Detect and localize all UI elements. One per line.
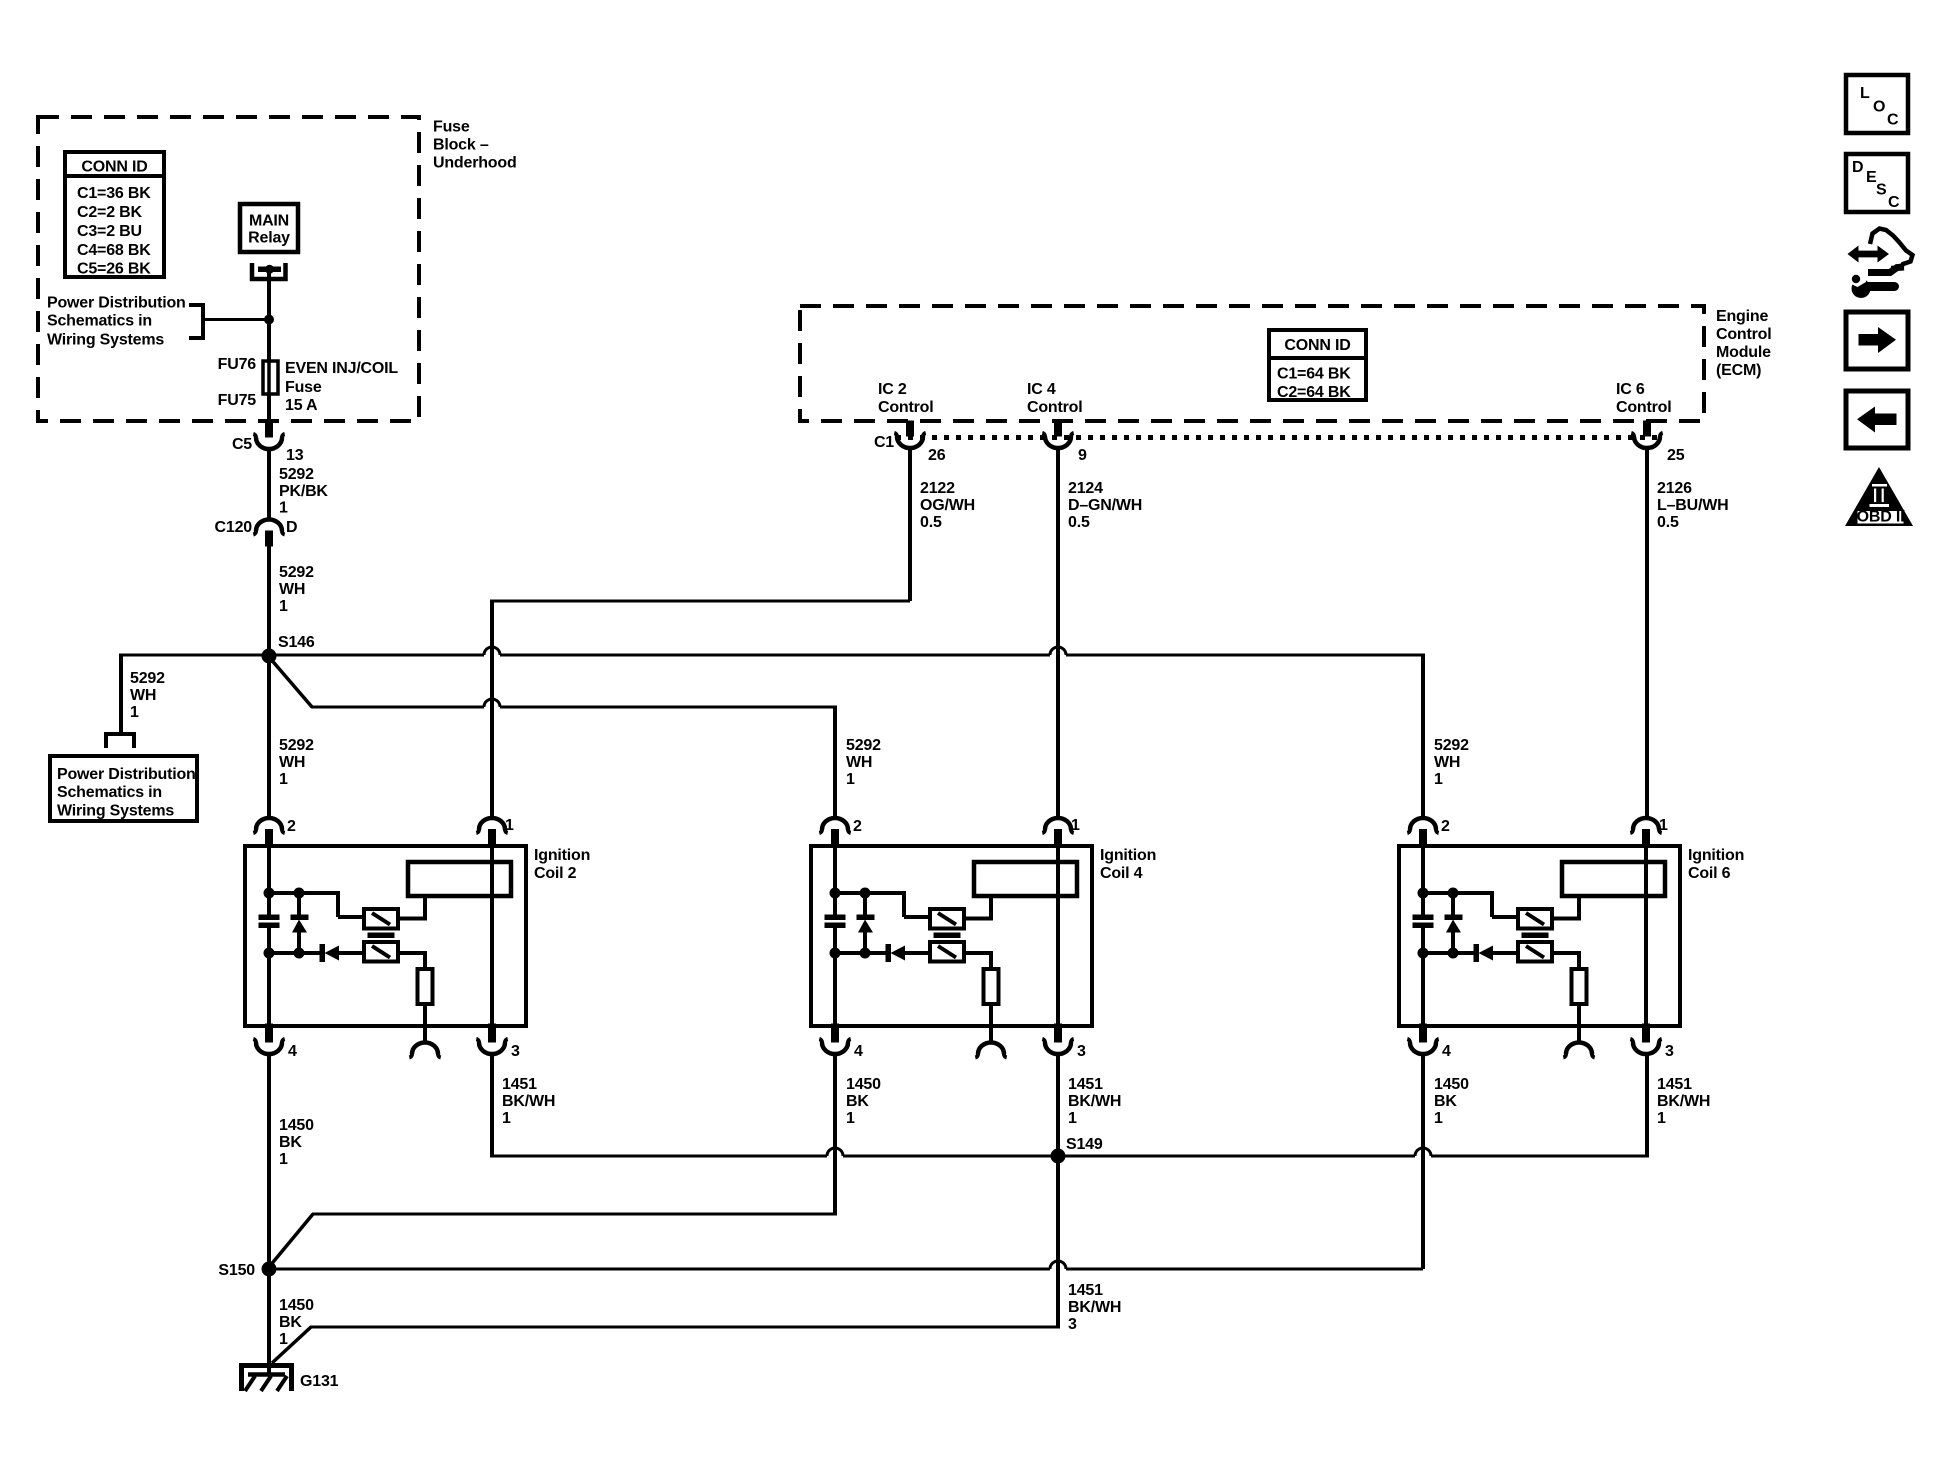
svg-text:1: 1 xyxy=(279,598,288,615)
svg-text:5292: 5292 xyxy=(846,737,881,754)
svg-text:Fuse: Fuse xyxy=(285,379,322,396)
svg-text:BK/WH: BK/WH xyxy=(1657,1093,1710,1110)
svg-text:CONN ID: CONN ID xyxy=(81,159,147,176)
wire: S150 ground bus to coil 6 pin 4 xyxy=(269,1261,1423,1269)
svg-text:Engine: Engine xyxy=(1716,308,1768,325)
coil 4 internal: capacitor xyxy=(825,915,845,928)
svg-text:Coil 2: Coil 2 xyxy=(534,865,577,882)
wire 1450 BK 1: coil 4 pin 4 to S150 xyxy=(269,1053,881,1267)
svg-text:1450: 1450 xyxy=(279,1297,314,1314)
svg-text:1: 1 xyxy=(505,817,514,834)
wire 5292 WH 1: S146 to ignition coil 4 pin 2 xyxy=(269,657,881,818)
label: Ignition Coil 4 xyxy=(1100,847,1156,882)
svg-text:D–GN/WH: D–GN/WH xyxy=(1068,497,1142,514)
svg-text:PK/BK: PK/BK xyxy=(279,483,328,500)
svg-text:25: 25 xyxy=(1667,447,1685,464)
coil 6 internal: isolation bar xyxy=(1522,933,1548,938)
svg-text:Ignition: Ignition xyxy=(1688,847,1744,864)
icon: vehicle service (car, double arrow, wrench) xyxy=(1847,229,1913,299)
svg-text:WH: WH xyxy=(279,754,305,771)
svg-text:1: 1 xyxy=(279,771,288,788)
coil 2 internal: isolation bar xyxy=(368,933,394,938)
svg-text:L: L xyxy=(1860,85,1870,102)
svg-text:1451: 1451 xyxy=(502,1076,537,1093)
coil 4 internal: zener diode xyxy=(857,893,874,953)
svg-text:2: 2 xyxy=(1441,818,1450,835)
svg-text:C5=26 BK: C5=26 BK xyxy=(77,261,151,278)
svg-text:G131: G131 xyxy=(300,1373,339,1390)
wire 5292 WH 1: C120 to S146 xyxy=(267,546,271,657)
svg-text:FU76: FU76 xyxy=(218,356,257,373)
svg-text:Relay: Relay xyxy=(248,230,290,247)
connector C120 pin D xyxy=(215,519,298,546)
svg-text:S: S xyxy=(1876,182,1887,199)
svg-text:1: 1 xyxy=(1657,1110,1666,1127)
svg-text:1: 1 xyxy=(1659,817,1668,834)
label: Ignition Coil 2 xyxy=(534,847,590,882)
coil 6 pin 3 xyxy=(1630,1024,1674,1060)
svg-text:EVEN INJ/COIL: EVEN INJ/COIL xyxy=(285,360,398,377)
svg-text:3: 3 xyxy=(511,1043,520,1060)
coil 4 pin 4 xyxy=(819,1024,863,1060)
fuse block underhood (dashed outline) xyxy=(38,117,419,421)
splice S150 xyxy=(218,1262,276,1280)
svg-text:4: 4 xyxy=(1442,1043,1451,1060)
svg-text:1: 1 xyxy=(279,1331,288,1348)
coil 6 internal: coil winding block xyxy=(1562,862,1665,896)
wire: fuse to connector C5 xyxy=(267,394,271,421)
label: wire 5292 PK/BK 1 xyxy=(279,466,328,517)
ignition coil 2 body xyxy=(245,846,526,1026)
svg-text:1: 1 xyxy=(279,1151,288,1168)
ECM connector C1 (dotted connector body line) xyxy=(874,434,1662,451)
label: IC 2 Control xyxy=(878,381,933,416)
svg-text:1451: 1451 xyxy=(1068,1076,1103,1093)
svg-text:Control: Control xyxy=(1027,399,1082,416)
splice S149 xyxy=(1051,1136,1103,1164)
svg-text:C2=64 BK: C2=64 BK xyxy=(1277,384,1351,401)
coil 6 internal: opto coupler lower xyxy=(1518,942,1552,962)
svg-text:O: O xyxy=(1873,99,1885,116)
svg-text:5292: 5292 xyxy=(279,564,314,581)
box: Power Distribution Schematics in Wiring Systems xyxy=(50,756,197,821)
ECM pin 25 (IC 6 Control) xyxy=(1631,421,1684,464)
svg-text:FU75: FU75 xyxy=(218,392,257,409)
svg-text:1: 1 xyxy=(1071,817,1080,834)
svg-text:1: 1 xyxy=(130,704,139,721)
svg-text:Control: Control xyxy=(1716,326,1771,343)
svg-text:Wiring Systems: Wiring Systems xyxy=(47,332,164,349)
ground G131 xyxy=(242,1366,339,1392)
svg-text:WH: WH xyxy=(1434,754,1460,771)
svg-text:Coil 6: Coil 6 xyxy=(1688,865,1731,882)
coil 2 pin 1 xyxy=(476,817,514,847)
svg-text:OG/WH: OG/WH xyxy=(920,497,975,514)
label: Engine Control Module (ECM) xyxy=(1716,308,1771,379)
svg-text:D: D xyxy=(286,519,297,536)
svg-text:Fuse: Fuse xyxy=(433,119,470,136)
svg-text:2122: 2122 xyxy=(920,480,955,497)
label: IC 4 Control xyxy=(1027,381,1082,416)
svg-text:D: D xyxy=(1852,159,1863,176)
coil 2 internal: diode xyxy=(320,945,339,962)
svg-text:C1: C1 xyxy=(874,434,894,451)
wire 1450 BK 1: coil 6 pin 4 to S150 bus xyxy=(1423,1053,1469,1269)
svg-text:BK: BK xyxy=(279,1134,302,1151)
svg-text:BK/WH: BK/WH xyxy=(1068,1299,1121,1316)
svg-text:Control: Control xyxy=(878,399,933,416)
coil 4 internal: diode xyxy=(886,945,905,962)
splice S146 xyxy=(262,634,315,664)
coil 2 mid pin (unused) xyxy=(409,1043,440,1058)
svg-text:Ignition: Ignition xyxy=(1100,847,1156,864)
svg-text:Block –: Block – xyxy=(433,137,489,154)
icon: LOC box xyxy=(1846,75,1908,133)
coil 4 internal: isolation bar xyxy=(934,933,960,938)
svg-text:3: 3 xyxy=(1068,1316,1077,1333)
wire 1451 BK/WH 1: coil 2 pin 3 to S149 bus xyxy=(492,1053,1647,1158)
svg-text:Coil 4: Coil 4 xyxy=(1100,865,1143,882)
ECM dashed box xyxy=(800,306,1704,421)
svg-text:BK/WH: BK/WH xyxy=(502,1093,555,1110)
ignition coil 4 body xyxy=(811,846,1092,1026)
svg-text:C120: C120 xyxy=(215,519,253,536)
ECM pin 26 (IC 2 Control) xyxy=(894,421,945,464)
coil 6 internal: capacitor xyxy=(1413,915,1433,928)
coil 4 internal: coil winding block xyxy=(974,862,1077,896)
svg-text:S146: S146 xyxy=(278,634,315,651)
svg-text:0.5: 0.5 xyxy=(1068,514,1090,531)
coil 2 internal: opto coupler lower xyxy=(364,942,398,962)
svg-text:1450: 1450 xyxy=(279,1117,314,1134)
fuse FU75/FU76: EVEN INJ/COIL Fuse 15 A xyxy=(263,361,278,394)
svg-text:WH: WH xyxy=(846,754,872,771)
coil 6 pin 1 xyxy=(1630,817,1668,847)
svg-text:BK/WH: BK/WH xyxy=(1068,1093,1121,1110)
label: EVEN INJ/COIL Fuse 15 A xyxy=(285,360,398,414)
svg-text:CONN ID: CONN ID xyxy=(1284,337,1350,354)
svg-text:Schematics in: Schematics in xyxy=(57,784,162,801)
svg-text:1: 1 xyxy=(1068,1110,1077,1127)
coil 4 pin 3 xyxy=(1042,1024,1086,1060)
icon: back arrow box xyxy=(1846,391,1908,448)
label: wire 5292 WH 1 (C120 to S146) xyxy=(279,564,314,615)
wire 1450 BK 1: S150 to ground G131 xyxy=(269,1269,314,1374)
wire 2124 D-GN/WH 0.5: ECM pin 9 to coil 4 pin 1 xyxy=(1058,448,1142,818)
coil 6 internal: opto coupler upper xyxy=(1518,909,1552,929)
relay contact symbol xyxy=(252,263,286,279)
svg-text:Schematics in: Schematics in xyxy=(47,313,152,330)
label FU75 xyxy=(218,392,257,409)
svg-text:Power Distribution: Power Distribution xyxy=(47,295,186,312)
wire 5292 WH 1: S146 to ignition coil 2 pin 2 xyxy=(269,657,314,818)
svg-text:15 A: 15 A xyxy=(285,397,318,414)
coil 4 pin 2 xyxy=(819,818,862,847)
reference bracket (lower power distribution) xyxy=(106,734,134,748)
label FU76 xyxy=(218,356,257,373)
svg-text:BK: BK xyxy=(846,1093,869,1110)
svg-text:Power Distribution: Power Distribution xyxy=(57,766,196,783)
coil 2 internal: opto coupler upper xyxy=(364,909,398,929)
svg-text:2: 2 xyxy=(287,818,296,835)
svg-text:2: 2 xyxy=(853,818,862,835)
icon: forward arrow box xyxy=(1846,312,1908,369)
svg-text:4: 4 xyxy=(854,1043,863,1060)
svg-text:C1=64 BK: C1=64 BK xyxy=(1277,366,1351,383)
ignition coil 6 body xyxy=(1399,846,1680,1026)
svg-text:Wiring Systems: Wiring Systems xyxy=(57,803,174,820)
svg-text:2124: 2124 xyxy=(1068,480,1103,497)
reference: Power Distribution Schematics in Wiring Systems (upper) xyxy=(47,295,203,349)
svg-text:C3=2 BU: C3=2 BU xyxy=(77,223,142,240)
svg-text:5292: 5292 xyxy=(130,670,165,687)
svg-text:1451: 1451 xyxy=(1657,1076,1692,1093)
svg-text:S149: S149 xyxy=(1066,1136,1103,1153)
wire 5292 WH 1: S146 to ignition coil 6 pin 2 xyxy=(269,647,1469,818)
wire: MAIN relay to fuse FU75 xyxy=(267,270,271,362)
wire 1451 BK/WH 3: S149 to ground G131 xyxy=(272,1156,1121,1363)
svg-text:3: 3 xyxy=(1665,1043,1674,1060)
coil 6 internal: diode xyxy=(1474,945,1493,962)
coil 4 pin 1 xyxy=(1042,817,1080,847)
wire 1450 BK 1: coil 2 pin 4 to S150 xyxy=(269,1053,314,1269)
coil 6 internal wiring xyxy=(1418,846,1647,1042)
svg-text:5292: 5292 xyxy=(279,737,314,754)
coil 4 internal: opto coupler upper xyxy=(930,909,964,929)
svg-text:1451: 1451 xyxy=(1068,1282,1103,1299)
CONN ID table (fuse block) xyxy=(65,152,164,278)
svg-text:26: 26 xyxy=(928,447,946,464)
coil 6 internal: resistor xyxy=(1572,969,1587,1004)
svg-text:1450: 1450 xyxy=(846,1076,881,1093)
junction: power distribution tap xyxy=(264,315,274,325)
coil 2 internal: resistor xyxy=(418,969,433,1004)
svg-text:MAIN: MAIN xyxy=(249,213,289,230)
svg-text:1: 1 xyxy=(502,1110,511,1127)
svg-text:C2=2 BK: C2=2 BK xyxy=(77,204,142,221)
coil 2 internal: coil winding block xyxy=(408,862,511,896)
svg-text:0.5: 0.5 xyxy=(920,514,942,531)
wire 2122 OG/WH 0.5: ECM pin 26 to coil 2 pin 1 xyxy=(490,448,975,818)
coil 4 internal: opto coupler lower xyxy=(930,942,964,962)
coil 2 internal wiring xyxy=(264,846,493,1042)
svg-text:L–BU/WH: L–BU/WH xyxy=(1657,497,1728,514)
label: IC 6 Control xyxy=(1616,381,1671,416)
svg-text:3: 3 xyxy=(1077,1043,1086,1060)
svg-text:Module: Module xyxy=(1716,344,1771,361)
coil 4 internal wiring xyxy=(830,846,1059,1042)
svg-text:Control: Control xyxy=(1616,399,1671,416)
svg-text:S150: S150 xyxy=(218,1262,255,1279)
wire 2126 L-BU/WH 0.5: ECM pin 25 to coil 6 pin 1 xyxy=(1647,448,1728,818)
wire 1451 BK/WH 1: coil 4 pin 3 to S149 xyxy=(1058,1053,1121,1156)
svg-text:Underhood: Underhood xyxy=(433,155,517,172)
svg-text:OBD II: OBD II xyxy=(1857,509,1905,526)
svg-text:BK: BK xyxy=(279,1314,302,1331)
svg-text:C: C xyxy=(1887,112,1899,129)
coil 2 pin 3 xyxy=(476,1024,520,1060)
svg-text:1: 1 xyxy=(846,1110,855,1127)
coil 2 internal: capacitor xyxy=(259,915,279,928)
svg-text:IC 6: IC 6 xyxy=(1616,381,1645,398)
svg-text:1: 1 xyxy=(1434,771,1443,788)
coil 6 pin 4 xyxy=(1407,1024,1451,1060)
wire 5292 PK/BK 1: C5 to C120 xyxy=(267,448,271,520)
svg-text:2126: 2126 xyxy=(1657,480,1692,497)
svg-text:BK: BK xyxy=(1434,1093,1457,1110)
svg-text:1450: 1450 xyxy=(1434,1076,1469,1093)
coil 6 pin 2 xyxy=(1407,818,1450,847)
svg-text:5292: 5292 xyxy=(1434,737,1469,754)
wire 1451 BK/WH 1: coil 6 pin 3 to S149 bus xyxy=(1647,1053,1710,1158)
connector C5 pin 13 xyxy=(232,421,304,464)
coil 6 mid pin (unused) xyxy=(1563,1043,1594,1058)
svg-text:C4=68 BK: C4=68 BK xyxy=(77,242,151,259)
label: Ignition Coil 6 xyxy=(1688,847,1744,882)
coil 2 internal: zener diode xyxy=(291,893,308,953)
svg-text:13: 13 xyxy=(286,447,304,464)
coil 4 internal: resistor xyxy=(984,969,999,1004)
svg-text:WH: WH xyxy=(279,581,305,598)
svg-text:C5: C5 xyxy=(232,436,252,453)
relay: MAIN Relay xyxy=(240,204,298,252)
wire 5292 WH 1: S146 to power distribution reference xyxy=(121,654,269,733)
svg-text:5292: 5292 xyxy=(279,466,314,483)
svg-text:WH: WH xyxy=(130,687,156,704)
wire: tap to power distribution bracket xyxy=(203,318,269,321)
icon: OBD II triangle xyxy=(1845,467,1913,526)
svg-text:1: 1 xyxy=(1434,1110,1443,1127)
svg-text:9: 9 xyxy=(1078,447,1087,464)
coil 4 mid pin (unused) xyxy=(975,1043,1006,1058)
label: Fuse Block - Underhood xyxy=(433,119,517,172)
coil 2 pin 2 xyxy=(253,818,296,847)
svg-text:1: 1 xyxy=(846,771,855,788)
svg-text:IC 2: IC 2 xyxy=(878,381,907,398)
svg-text:IC 4: IC 4 xyxy=(1027,381,1056,398)
svg-text:(ECM): (ECM) xyxy=(1716,362,1761,379)
svg-text:1: 1 xyxy=(279,500,288,517)
svg-text:C1=36 BK: C1=36 BK xyxy=(77,185,151,202)
CONN ID table (ECM) xyxy=(1269,330,1366,401)
icon: DESC box xyxy=(1846,154,1908,212)
svg-text:4: 4 xyxy=(288,1043,297,1060)
coil 2 pin 4 xyxy=(253,1024,297,1060)
svg-text:0.5: 0.5 xyxy=(1657,514,1679,531)
ECM pin 9 (IC 4 Control) xyxy=(1042,421,1087,464)
svg-text:Ignition: Ignition xyxy=(534,847,590,864)
svg-text:C: C xyxy=(1888,194,1900,211)
coil 6 internal: zener diode xyxy=(1445,893,1462,953)
